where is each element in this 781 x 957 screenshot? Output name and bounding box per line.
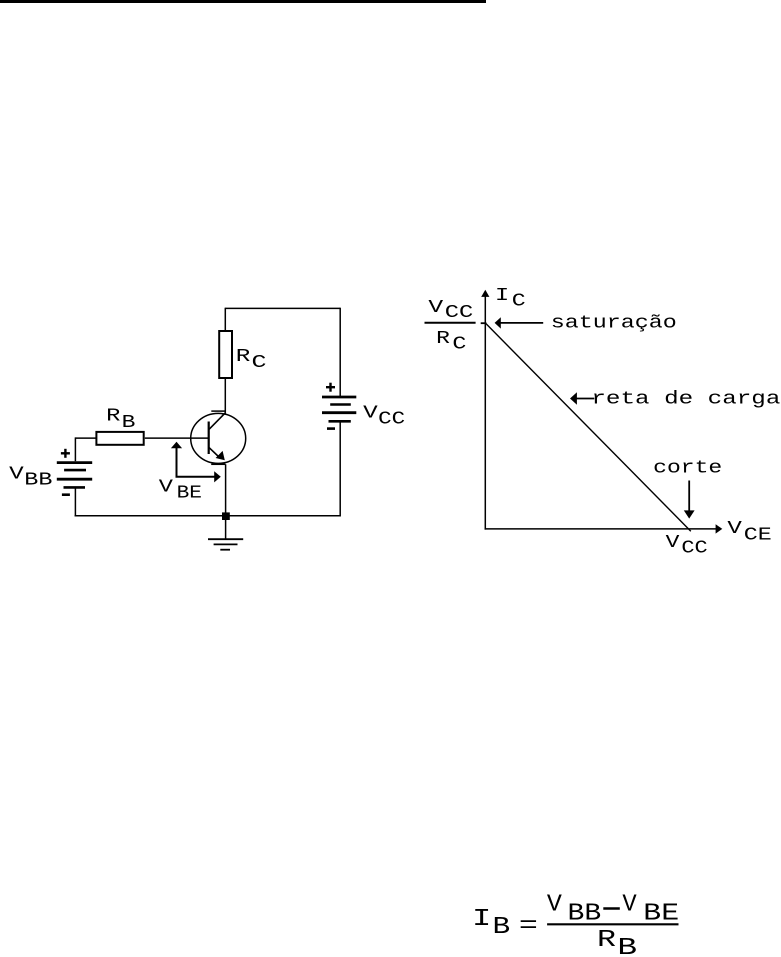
label VCC battery: [363, 403, 405, 429]
label IC axis: [495, 286, 526, 311]
svg-text:V: V: [363, 403, 378, 423]
svg-text:V: V: [622, 891, 637, 918]
svg-text:V: V: [428, 298, 443, 318]
ground stem wire: [225, 516, 227, 539]
svg-text:C: C: [252, 353, 267, 373]
collector top chord segment: [211, 410, 225, 412]
svg-text:V: V: [666, 533, 680, 553]
svg-text:I: I: [495, 286, 509, 306]
junction node dot: [222, 512, 230, 520]
svg-text:R: R: [436, 329, 450, 349]
wire bottom horizontal: [75, 515, 341, 517]
VBE horizontal arrow: [176, 471, 221, 482]
svg-text:R: R: [236, 347, 251, 367]
label RB: [106, 407, 135, 433]
ground symbol: [208, 539, 243, 550]
svg-text:BB: BB: [24, 471, 52, 491]
label VCC on x axis: [666, 533, 708, 558]
reta de carga arrow: [570, 392, 594, 404]
tick on y axis at Vcc/Rc: [481, 322, 487, 324]
svg-text:R: R: [597, 927, 616, 954]
svg-text:CC: CC: [378, 409, 405, 429]
resistor RC body: [219, 331, 232, 378]
svg-text:CC: CC: [681, 539, 708, 559]
wire top-left vertical into Rc: [224, 308, 226, 331]
emitter bottom chord segment: [211, 463, 225, 465]
svg-text:CE: CE: [744, 526, 772, 546]
svg-text:V: V: [9, 465, 24, 485]
svg-text:C: C: [452, 334, 466, 354]
wire battery VBB bottom: [74, 487, 76, 516]
wire collector vertical: [224, 378, 226, 413]
svg-text:I: I: [472, 906, 491, 933]
wire emitter vertical: [225, 464, 227, 516]
svg-text:V: V: [547, 891, 563, 918]
saturacao arrow: [495, 317, 544, 328]
battery VBB plus sign: [61, 449, 70, 458]
wire base horizontal: [145, 437, 208, 439]
label VCE axis: [727, 519, 771, 546]
wire right vertical top (to VCC battery): [339, 308, 341, 397]
formula denominator RB: [597, 927, 637, 957]
svg-text:B: B: [617, 935, 637, 957]
svg-text:BE: BE: [177, 484, 202, 504]
svg-text:B: B: [493, 914, 511, 941]
svg-text:R: R: [106, 407, 121, 427]
transistor collector diagonal: [209, 413, 225, 430]
fraction VCC over RC: [425, 298, 476, 355]
wire top horizontal (Rc top to Vcc top): [225, 307, 340, 309]
wire RB left to corner: [75, 437, 96, 439]
svg-text:B: B: [122, 413, 136, 433]
svg-text:saturação: saturação: [551, 314, 677, 334]
corte arrow: [684, 481, 695, 519]
title underline rule: [0, 0, 486, 3]
battery VCC minus sign: [327, 427, 335, 430]
battery VCC plates: [322, 397, 356, 421]
svg-text:corte: corte: [653, 459, 722, 479]
battery VBB minus sign: [62, 493, 70, 496]
wire right vertical bottom: [339, 421, 341, 516]
formula IB = (VBB - VBE)/RB: [472, 891, 679, 941]
emitter arrowhead: [216, 451, 225, 460]
transistor Q1 body circle: [191, 413, 246, 463]
transistor base bar: [208, 422, 210, 455]
svg-text:reta de carga: reta de carga: [591, 390, 780, 410]
resistor RB body: [96, 432, 143, 445]
graph y axis IC: [481, 290, 489, 530]
label VBE: [159, 478, 202, 504]
formula fraction bar: [547, 923, 678, 925]
formula minus sign: [603, 907, 620, 910]
svg-text:V: V: [727, 519, 742, 539]
svg-text:=: =: [519, 913, 538, 940]
transistor emitter diagonal: [209, 448, 219, 458]
battery VCC plus sign: [326, 383, 335, 392]
svg-text:V: V: [159, 478, 173, 498]
wire left vertical to battery: [74, 437, 76, 461]
label VBB: [9, 465, 52, 491]
VBE vertical arrow: [171, 442, 182, 477]
graph x axis VCE: [485, 524, 723, 533]
svg-text:CC: CC: [445, 303, 474, 323]
svg-text:C: C: [512, 291, 526, 311]
battery VBB plates: [57, 463, 92, 488]
load line (reta de carga): [486, 323, 691, 531]
label RC: [236, 347, 267, 373]
